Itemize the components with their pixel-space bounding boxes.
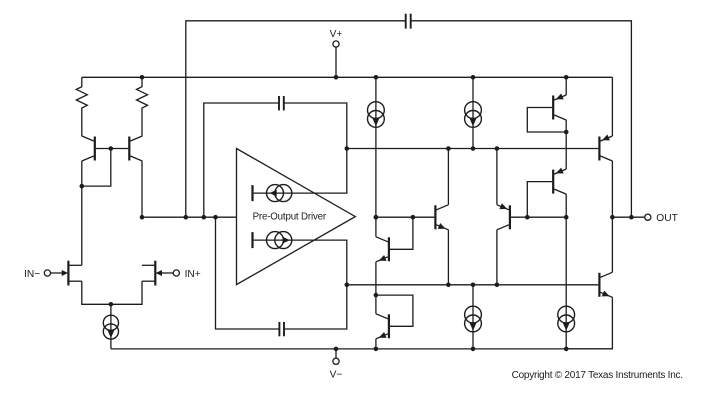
svg-text:Pre-Output Driver: Pre-Output Driver [253, 211, 327, 222]
node: Q3-Q4 junction [374, 293, 379, 298]
node: rail2 left end [345, 146, 350, 151]
wire: Q10 collector to OUT node [611, 217, 613, 272]
wire: I6 column (rail3 to V- rail) [472, 285, 474, 349]
wire: outer compensation loop (cap to right side down to OUT node) [411, 21, 631, 217]
wire: base tie down-left link [82, 149, 111, 187]
svg-text:V−: V− [330, 369, 343, 380]
wire: inner bottom loop (cap to right up to rail3) [285, 285, 347, 329]
wire: Q7 emitter from Q8 node [565, 132, 567, 169]
wire: Q9 emitter from V+ rail corner [611, 77, 613, 136]
wire: Q7 base loop [527, 182, 552, 218]
op-amp U1 (Pre-Output Driver triangle) [237, 149, 356, 285]
wire: right column (Q2 emitter to input node) [141, 161, 143, 217]
capacitor C3 (bottom Miller cap, plates) [279, 322, 284, 336]
node: V- stub [334, 347, 339, 352]
wire: input node line to driver [142, 216, 237, 218]
current source I6 [465, 306, 482, 332]
wire: Q3 base loop [390, 217, 413, 249]
wire: Q3 collector up [375, 217, 377, 237]
wire: Q6 emitter from rail2 [496, 149, 498, 205]
label Pre-Output Driver [253, 211, 327, 222]
wire: inner top loop (cap to right down to rail2) [285, 103, 347, 149]
wire: Q5 collector to rail2 [447, 149, 449, 205]
transistor Q8 (diode-connected PNP) [553, 93, 566, 120]
output terminal OUT [645, 214, 651, 220]
node: Q6 emitter at rail2 [495, 146, 500, 151]
node: inner top loop tap [202, 215, 207, 220]
wire: Q4 base loop [376, 295, 413, 326]
node: R2 on V+ rail [140, 75, 145, 80]
resistor R1 (left input load) [76, 77, 87, 136]
wire: V- terminal stub [335, 349, 337, 358]
label V- [330, 369, 343, 380]
resistor R2 (right input load) [137, 77, 148, 136]
wire: Q7 collector down [565, 194, 567, 217]
label copyright [512, 370, 683, 381]
wire: driver output line to Q5 base [376, 216, 435, 218]
transistor Q9 (PNP output) [599, 134, 612, 161]
wire: Q1-Q2 base tie [96, 148, 129, 150]
node: driver output node [374, 215, 379, 220]
wire: Q8 emitter from V+ rail [565, 77, 567, 95]
node: Q6 collector at rail3 [495, 283, 500, 288]
node: Q3 base tap [411, 215, 416, 220]
wire: driver top source to rail2 [254, 149, 347, 194]
svg-text:OUT: OUT [656, 213, 678, 224]
node: left column junction [80, 184, 85, 189]
node: I7 at V- rail [564, 347, 569, 352]
node: V+ at rail [334, 75, 339, 80]
node: Q5 emitter at rail3 [446, 283, 451, 288]
node: I6 at rail3 [471, 283, 476, 288]
wire: Q6 base line [511, 216, 566, 218]
wire: Q8 collector down [565, 120, 567, 132]
wire: M2 source to tail [111, 281, 142, 304]
transistor Q3 (diode-connected NPN) [376, 237, 389, 262]
node: compensation loop at OUT [629, 215, 634, 220]
wire: V+ rail [82, 76, 613, 78]
label IN- [24, 269, 40, 280]
wire: Q6 collector to rail3 [496, 230, 498, 285]
node: I5 at V+ rail [471, 75, 476, 80]
node: I5 at rail2 [471, 146, 476, 151]
node: I4 at driver node [374, 215, 379, 220]
node: inner bottom loop tap [213, 215, 218, 220]
node: Q8 collector-base junction [564, 130, 569, 135]
capacitor C2 (top Miller cap, plates) [279, 96, 284, 110]
wire: Q10 emitter to V- rail corner [566, 297, 612, 349]
transistor Q10 (NPN output) [599, 272, 612, 297]
wire: Q4 emitter to V- rail [375, 339, 377, 349]
wire: rail3 (lower bias rail) [347, 284, 599, 286]
svg-text:V+: V+ [330, 29, 343, 40]
node: Q8 emitter at V+ rail [564, 75, 569, 80]
label V+ [330, 29, 343, 40]
wire: I5 column (V+ rail to rail2) [472, 77, 474, 148]
wire: Q3 emitter down [375, 262, 377, 295]
node: OUT junction [610, 215, 615, 220]
node: Q5 collector at rail2 [446, 146, 451, 151]
power terminal V+ [333, 41, 339, 47]
node: base tie junction [109, 146, 114, 151]
node: input node at right column [140, 215, 145, 220]
current source I3 (driver bottom, arrow right) [253, 232, 292, 249]
wire: driver bottom source to rail3 [254, 240, 347, 285]
wire: inner top loop (left + top to cap) [204, 103, 278, 217]
input terminal IN+ [173, 270, 179, 276]
wire: left column (Q1 emitter to M1 drain) [81, 161, 83, 265]
current source I1 (input tail) [103, 315, 118, 339]
wire: I4 column (V+ rail to driver node) [375, 77, 377, 217]
transistor Q5 (NPN level shift) [435, 205, 448, 230]
current source I2 (driver top, arrow left) [253, 185, 292, 202]
svg-text:Copyright © 2017 Texas Instrum: Copyright © 2017 Texas Instruments Inc. [512, 370, 683, 381]
node: Q4 emitter at V- rail [374, 347, 379, 352]
wire: Q8 base loop [527, 108, 566, 133]
power terminal V- [333, 358, 339, 364]
wire: V- rail [111, 348, 613, 350]
wire: Q4 collector up [375, 295, 377, 314]
transistor M2 (IN+ input FET) [142, 261, 175, 286]
label OUT [656, 213, 678, 224]
wire: tail down to V- rail [110, 304, 112, 349]
node: rail3 left end [345, 283, 350, 288]
current source I7 [558, 306, 575, 332]
wire: OUT line [612, 216, 644, 218]
label IN+ [185, 269, 201, 280]
node: Q7 collector node [564, 215, 569, 220]
transistor Q2 (right mirror device) [129, 136, 142, 161]
transistor Q6 (PNP) [497, 203, 510, 230]
input terminal IN- [44, 270, 50, 276]
node: tail junction [109, 302, 114, 307]
svg-text:IN−: IN− [24, 269, 40, 280]
node: Q7 base tap [525, 215, 530, 220]
svg-text:IN+: IN+ [185, 269, 201, 280]
wire: Q5 emitter to rail3 [447, 230, 449, 285]
capacitor C1 (outer compensation, plates) [406, 14, 411, 29]
wire: M1 source to tail [82, 281, 111, 304]
wire: outer compensation loop (left side + top to cap) [186, 21, 405, 217]
node: outer loop tap [184, 215, 189, 220]
wire: inner bottom loop (left + bottom to cap) [216, 217, 279, 329]
current source I4 [368, 102, 385, 128]
node: I4 at V+ rail [374, 75, 379, 80]
transistor Q7 (PNP) [553, 168, 566, 195]
transistor Q4 (diode-connected NPN) [376, 314, 389, 339]
node: I6 at V- rail [471, 347, 476, 352]
wire: Q9 collector to OUT node [611, 161, 613, 217]
wire: I7 column (Q7 node to V- rail) [565, 217, 567, 349]
transistor Q1 (left mirror device) [82, 136, 95, 161]
wire: rail2 (upper bias rail) [347, 148, 599, 150]
transistor M1 (IN- input FET) [49, 261, 82, 286]
current source I5 [465, 102, 482, 128]
wire: V+ terminal stub [335, 47, 337, 77]
